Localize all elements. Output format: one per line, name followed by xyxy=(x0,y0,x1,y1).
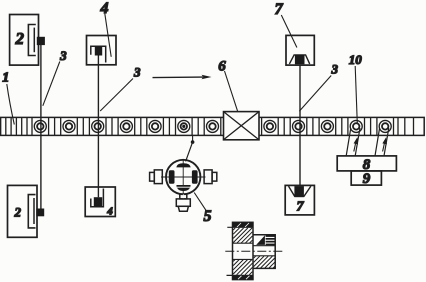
roller circles on conveyor xyxy=(34,120,46,132)
workpiece centerline (dash-dot) xyxy=(225,250,284,252)
svg-text:5: 5 xyxy=(204,208,212,225)
turret device 5: main circle xyxy=(166,160,200,194)
conveyor beam (transporter) 1 xyxy=(1,117,425,135)
junction dot and link from conveyor to turret 5 xyxy=(186,136,195,161)
svg-text:1: 1 xyxy=(2,71,9,86)
gear rim hatching lower xyxy=(233,259,252,274)
turret 5 left spindle xyxy=(150,170,163,184)
device box 2 (bottom gripper) xyxy=(8,185,45,237)
svg-text:7: 7 xyxy=(297,200,305,215)
wire rod station 7 (x=300) xyxy=(299,64,301,185)
svg-text:2: 2 xyxy=(14,205,22,220)
svg-text:7: 7 xyxy=(275,1,284,18)
chute 2 to magazine (right pair of slanted lines) xyxy=(375,128,389,156)
device box 2 (top gripper) xyxy=(10,15,45,66)
magazine box 9 xyxy=(351,171,381,185)
hub chamfer triangle xyxy=(256,235,265,245)
wire rod station 2 (x=40.9) xyxy=(40,45,42,209)
wire rod station 4 (x=98.4) xyxy=(97,56,99,198)
turret 5 bottom spindle xyxy=(176,194,190,211)
gear bore edges (left block) xyxy=(233,243,252,259)
svg-text:9: 9 xyxy=(363,171,371,187)
device box 6 (crossed box on conveyor) xyxy=(224,112,260,140)
workpiece gear section: left rim block xyxy=(233,222,254,279)
turret 5 right jaw xyxy=(192,170,198,183)
gear rim hatching upper xyxy=(233,228,252,243)
gear rim band lines and ticks xyxy=(227,227,254,275)
magazine box 8 xyxy=(337,156,396,171)
svg-text:3: 3 xyxy=(59,48,67,63)
device box 4 (top pocket) xyxy=(87,36,117,65)
turret 5 left jaw xyxy=(169,170,175,183)
gear bottom dark band xyxy=(233,276,253,280)
chute 1 to magazine (left pair of slanted lines) xyxy=(346,128,360,156)
svg-text:3: 3 xyxy=(133,65,141,80)
direction-of-travel arrow xyxy=(153,75,212,79)
svg-text:4: 4 xyxy=(106,206,113,218)
turret 5 right spindle xyxy=(204,170,217,184)
hub thread bands xyxy=(266,235,275,245)
device box 7 (bottom receiver funnel) xyxy=(285,185,314,215)
chute 1 arrow xyxy=(354,137,359,151)
svg-text:10: 10 xyxy=(349,52,363,67)
gear top dark band xyxy=(233,223,253,227)
svg-text:3: 3 xyxy=(331,62,339,77)
chute 2 arrow xyxy=(382,137,387,151)
turret 5 crosshair centerlines xyxy=(161,161,206,195)
device box 7 (top feeder funnel) xyxy=(286,35,314,65)
hub bore edges xyxy=(253,246,275,256)
svg-text:4: 4 xyxy=(100,0,109,17)
device box 4 (bottom pocket) xyxy=(85,187,115,217)
turret 5 top collet (filled dome) xyxy=(176,163,190,167)
turret 5 bottom collet (filled) xyxy=(176,185,190,191)
label 5 with leader xyxy=(194,193,206,211)
hub outline xyxy=(253,235,275,269)
svg-text:2: 2 xyxy=(14,29,24,48)
hub lower hatching xyxy=(254,256,275,268)
